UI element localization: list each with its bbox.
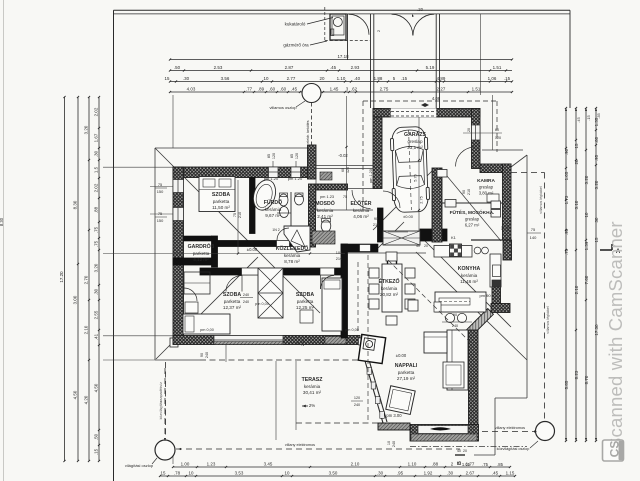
svg-text:2.10: 2.10	[574, 285, 579, 294]
dim chain right 3	[585, 108, 587, 441]
dim chain left 4	[98, 97, 100, 461]
svg-text:B: B	[457, 461, 463, 465]
svg-text:.75: .75	[482, 462, 488, 467]
porch dim line vertical	[346, 96, 348, 210]
svg-text:.85: .85	[497, 462, 503, 467]
svg-text:parketta: parketta	[297, 299, 314, 304]
dim line 60/120 garage east	[463, 132, 502, 134]
extension line terrace door	[275, 361, 277, 440]
svg-text:20: 20	[467, 128, 471, 132]
svg-text:.60: .60	[594, 136, 599, 143]
svg-text:2.77: 2.77	[287, 76, 296, 81]
svg-text:villamos légkábel: villamos légkábel	[546, 306, 550, 334]
fireplace (kandallo)	[358, 334, 385, 363]
svg-text:240: 240	[392, 441, 396, 447]
svg-text:SZOBA: SZOBA	[212, 192, 230, 198]
svg-text:pm 90: pm 90	[479, 293, 491, 298]
wall garage east	[472, 109, 481, 169]
porch valley short diagonal	[378, 222, 404, 248]
window gap in garage east wall	[472, 125, 481, 140]
svg-text:5.19: 5.19	[426, 65, 435, 70]
svg-text:.40: .40	[354, 76, 361, 81]
svg-text:TERASZ: TERASZ	[302, 377, 324, 383]
svg-text:pm 0,00: pm 0,00	[255, 302, 269, 306]
svg-text:2.53: 2.53	[214, 65, 223, 70]
tv cabinet rotated	[386, 386, 415, 415]
svg-text:±0.00: ±0.00	[403, 214, 414, 219]
rug dashed	[388, 231, 408, 233]
svg-text:csapadékvíz: csapadékvíz	[159, 382, 163, 402]
light pole circle (villanyoszlop)	[302, 84, 321, 103]
wc mosdo	[321, 220, 331, 232]
svg-text:1.67: 1.67	[94, 133, 99, 142]
svg-text:1.05: 1.05	[462, 462, 471, 467]
svg-text:pm 1.20: pm 1.20	[288, 176, 303, 181]
svg-text:150: 150	[157, 218, 164, 223]
svg-text:20,82 m²: 20,82 m²	[380, 292, 399, 297]
svg-text:1.23: 1.23	[207, 461, 216, 466]
svg-text:210: 210	[467, 189, 471, 195]
svg-text:kerámia: kerámia	[381, 286, 398, 291]
svg-text:parketta: parketta	[193, 251, 210, 256]
wc 2	[295, 194, 304, 205]
SE eaves step	[495, 397, 527, 399]
kukatarolo eaves dashes	[324, 7, 326, 41]
svg-text:240: 240	[243, 300, 249, 304]
wall gardrobe east	[212, 236, 218, 267]
gardrobe shelves	[184, 272, 210, 294]
interior dim line vertical	[237, 180, 239, 253]
wall gardrobe north partial	[184, 236, 212, 241]
svg-text:17.30: 17.30	[594, 324, 599, 336]
kamra door white 2	[445, 200, 456, 208]
svg-text:1.10: 1.10	[337, 76, 346, 81]
svg-text:SZOBA: SZOBA	[296, 292, 314, 298]
svg-text:pm 1.20: pm 1.20	[369, 169, 373, 183]
svg-text:.62: .62	[351, 86, 358, 91]
dashed line right side vertical	[544, 173, 546, 421]
glazed wall bottom connect	[378, 423, 410, 430]
washer dryer boiler	[491, 201, 501, 209]
svg-text:pm 1.23: pm 1.23	[320, 194, 334, 199]
extension line to east wing eaves	[491, 95, 493, 150]
svg-text:.15: .15	[401, 76, 408, 81]
nappali west angled glazed wall	[358, 335, 384, 423]
door arc gardrobe	[184, 288, 197, 301]
svg-text:85: 85	[290, 154, 294, 158]
big south window / terrace door	[214, 336, 283, 345]
svg-text:120: 120	[295, 153, 299, 159]
driveway west double line	[370, 14, 372, 108]
svg-text:.90: .90	[564, 148, 569, 155]
kamra door white 1	[437, 170, 447, 178]
property boundary top double line	[114, 9, 571, 11]
garage eaves dashed east	[496, 101, 498, 152]
south door sill szoba2	[325, 337, 346, 345]
svg-text:20: 20	[320, 76, 325, 81]
svg-text:.75: .75	[94, 240, 99, 247]
svg-text:KONYHA: KONYHA	[458, 266, 481, 272]
svg-text:3.56: 3.56	[221, 76, 230, 81]
garage interior dim line	[418, 117, 420, 231]
svg-text:1.51: 1.51	[493, 65, 502, 70]
svg-text:3.20: 3.20	[94, 263, 99, 272]
wall garage kamra sep	[432, 168, 442, 242]
sliding window black lens	[430, 427, 451, 430]
porch-garage valley diagonal	[373, 171, 432, 230]
svg-text:90: 90	[462, 190, 466, 194]
svg-text:240: 240	[301, 340, 305, 346]
svg-text:.75: .75	[564, 248, 569, 255]
door arc szoba3	[226, 276, 242, 292]
svg-text:7.60: 7.60	[584, 275, 589, 284]
sofa L-shape	[447, 330, 468, 390]
kitchen counter east appliances	[490, 254, 501, 287]
svg-text:±0.00: ±0.00	[247, 247, 258, 252]
svg-text:10: 10	[264, 76, 269, 81]
svg-text:K1: K1	[451, 235, 457, 240]
svg-text:pm 0,00: pm 0,00	[200, 328, 214, 332]
svg-text:120: 120	[272, 153, 276, 159]
roof overhang dashed south (main)	[200, 359, 360, 361]
ridge dash diagonal	[388, 260, 470, 342]
porch slab south line	[348, 252, 426, 254]
svg-text:8,78 m²: 8,78 m²	[284, 259, 300, 264]
svg-text:3,80 m²: 3,80 m²	[479, 190, 494, 195]
svg-text:.45: .45	[492, 470, 499, 475]
svg-text:15: 15	[594, 237, 599, 242]
svg-text:1.73: 1.73	[564, 195, 569, 204]
svg-text:8.30: 8.30	[0, 217, 4, 226]
wall futes east upper	[503, 240, 512, 260]
eaves outline southwest corner	[155, 359, 200, 361]
svg-text:3.20: 3.20	[584, 175, 589, 184]
svg-text:90: 90	[374, 217, 378, 221]
angled glass wall SE	[467, 309, 494, 336]
window W1 in north wall	[269, 167, 279, 178]
svg-text:2.10: 2.10	[84, 325, 89, 334]
property boundary left line	[113, 10, 115, 481]
svg-text:gázmérő óra: gázmérő óra	[283, 43, 309, 48]
svg-text:75: 75	[233, 213, 237, 217]
CS logo box	[603, 440, 624, 461]
svg-text:75: 75	[531, 227, 536, 232]
svg-text:30: 30	[594, 217, 599, 222]
svg-text:közvilágítás: közvilágítás	[159, 400, 163, 419]
svg-text:90: 90	[200, 353, 204, 357]
bidet	[280, 207, 289, 218]
svg-text:4.50: 4.50	[73, 390, 78, 399]
svg-text:világítási oszlop: világítási oszlop	[125, 463, 154, 468]
dim chain right 4	[595, 108, 597, 441]
wall kamra north	[480, 164, 511, 173]
svg-text:8.70: 8.70	[584, 375, 589, 384]
svg-text:1.51: 1.51	[472, 86, 481, 91]
garage eaves dashed west	[362, 101, 364, 211]
svg-text:1.92: 1.92	[424, 470, 433, 475]
wall gardrobe south	[173, 258, 212, 265]
svg-text:2%: 2%	[309, 403, 315, 408]
east wing eaves north	[482, 149, 523, 151]
svg-text:150: 150	[157, 189, 164, 194]
wall left-wing west	[173, 167, 184, 344]
svg-text:1.88: 1.88	[374, 76, 383, 81]
shower corner	[284, 226, 310, 252]
svg-text:20: 20	[463, 449, 467, 453]
eaves outline west	[154, 148, 156, 360]
svg-text:2.27: 2.27	[437, 86, 446, 91]
door arc garage side	[383, 191, 400, 208]
svg-text:pm 0,00: pm 0,00	[345, 328, 359, 332]
svg-text:10: 10	[285, 470, 290, 475]
bar stools	[445, 313, 454, 322]
svg-text:3.45: 3.45	[264, 461, 273, 466]
extension line top wall to left chains	[103, 166, 173, 168]
svg-text:ÉTKEZŐ: ÉTKEZŐ	[378, 277, 399, 285]
south sliding window	[418, 426, 468, 434]
svg-text:1.15: 1.15	[506, 470, 515, 475]
svg-text:4,12 m²: 4,12 m²	[193, 257, 209, 262]
svg-text:105: 105	[336, 250, 343, 255]
svg-text:1.06: 1.06	[488, 76, 497, 81]
svg-text:10: 10	[189, 470, 194, 475]
svg-text:30,41 m²: 30,41 m²	[303, 390, 322, 395]
wall kitchen east	[492, 258, 501, 304]
dim chain left 2	[77, 97, 79, 461]
svg-text:.15: .15	[94, 448, 99, 455]
bath partition	[290, 192, 292, 226]
extension line bottom chain to house	[172, 448, 174, 464]
svg-text:90: 90	[453, 313, 457, 317]
svg-text:.15: .15	[586, 115, 591, 120]
svg-text:.98: .98	[564, 228, 569, 235]
svg-text:kerámia: kerámia	[304, 384, 321, 389]
door arc bath	[277, 228, 289, 240]
bathtub	[250, 177, 280, 213]
svg-text:120: 120	[346, 167, 350, 173]
svg-text:greslap: greslap	[407, 139, 423, 144]
svg-text:pm 1.20: pm 1.20	[264, 176, 279, 181]
svg-text:2.02: 2.02	[94, 183, 99, 192]
svg-text:pm 3.00: pm 3.00	[386, 413, 402, 418]
elder east wall lower black	[378, 208, 384, 242]
door gap bathroom south	[277, 241, 289, 246]
porch column	[388, 258, 397, 267]
scan left edge shadow	[3, 0, 5, 481]
wall bathroom south	[215, 241, 310, 247]
kamra diagonal roof line	[442, 170, 501, 241]
svg-text:2.02: 2.02	[94, 107, 99, 116]
svg-text:.88: .88	[94, 206, 99, 213]
east wing eaves corner diagonal	[511, 155, 527, 167]
nappali SW overhang dashed	[296, 422, 378, 424]
wall porch stub	[308, 145, 317, 179]
east wing eaves east vertical	[526, 155, 528, 360]
svg-text:240: 240	[205, 352, 209, 358]
svg-text:4,06 m²: 4,06 m²	[353, 214, 369, 219]
svg-text:2.75: 2.75	[380, 86, 389, 91]
entrance mat	[320, 172, 332, 180]
vertical dashed from pole up	[164, 368, 166, 439]
svg-text:210: 210	[506, 225, 510, 231]
svg-text:9,67 m²: 9,67 m²	[265, 213, 281, 218]
wall left-wing north	[173, 167, 311, 178]
wall garage north	[373, 109, 480, 118]
svg-text:-0.02: -0.02	[338, 153, 348, 158]
svg-text:4.20: 4.20	[84, 395, 89, 404]
kitchen counter north	[434, 246, 472, 258]
desk szoba3	[185, 302, 198, 313]
wall corridor south (above bedrooms)	[200, 268, 342, 275]
coffee table	[443, 362, 464, 388]
wall kitchen south	[491, 304, 510, 313]
svg-text:.30: .30	[183, 76, 190, 81]
svg-text:.95: .95	[594, 154, 599, 161]
svg-text:parketta: parketta	[213, 199, 230, 204]
svg-text:8.30: 8.30	[73, 200, 78, 209]
kitchen island	[435, 292, 486, 312]
svg-text:240: 240	[354, 403, 360, 407]
svg-text:60: 60	[341, 168, 345, 172]
svg-text:210: 210	[373, 223, 379, 227]
door gaps corridor south	[242, 269, 258, 275]
svg-text:2.93: 2.93	[351, 65, 360, 70]
extension line house west to top chains	[172, 95, 174, 148]
svg-text:15: 15	[574, 143, 579, 148]
svg-text:20: 20	[574, 159, 579, 164]
svg-text:SZOBA: SZOBA	[223, 292, 241, 298]
main gate swing arcs	[392, 14, 413, 35]
svg-text:240: 240	[243, 293, 249, 297]
svg-text:.30: .30	[94, 288, 99, 295]
svg-text:2.70: 2.70	[84, 275, 89, 284]
dim chain bottom 2	[160, 475, 515, 477]
svg-text:210: 210	[336, 256, 343, 261]
window dim leader lines	[150, 186, 173, 188]
svg-text:greslap: greslap	[479, 184, 494, 189]
svg-text:.50: .50	[94, 433, 99, 440]
svg-text:210: 210	[238, 212, 242, 218]
SE valley diagonal	[424, 240, 511, 327]
svg-text:11,50 m²: 11,50 m²	[212, 205, 230, 210]
driveway east double line	[435, 14, 437, 108]
svg-text:10: 10	[387, 441, 391, 445]
svg-text:12,37 m²: 12,37 m²	[223, 305, 242, 310]
svg-text:140: 140	[530, 235, 537, 240]
small gate swing arc	[349, 14, 370, 35]
svg-text:75: 75	[158, 182, 162, 187]
svg-text:.30: .30	[447, 470, 454, 475]
entrance steps	[383, 231, 420, 245]
wardrobe with X	[258, 268, 283, 318]
svg-text:.77: .77	[246, 86, 253, 91]
svg-text:3.20: 3.20	[84, 125, 89, 134]
dim chain top 1	[170, 59, 512, 61]
svg-text:6,27 m²: 6,27 m²	[465, 222, 480, 227]
svg-text:.30: .30	[94, 150, 99, 157]
kamra shelf	[487, 194, 499, 202]
section marker A	[600, 249, 612, 251]
wall east of szoba2 / etkezo west	[341, 244, 348, 338]
wall mosdo west	[309, 184, 316, 247]
svg-text:2.87: 2.87	[285, 65, 294, 70]
svg-text:120: 120	[354, 396, 360, 400]
svg-text:kerámia: kerámia	[265, 207, 282, 212]
svg-text:.60: .60	[269, 86, 276, 91]
svg-text:CS: CS	[608, 441, 622, 458]
svg-text:8.23: 8.23	[574, 370, 579, 379]
svg-text:.78: .78	[174, 470, 181, 475]
svg-text:1.45: 1.45	[330, 86, 339, 91]
svg-text:11,46 m²: 11,46 m²	[460, 279, 478, 284]
svg-text:.41: .41	[94, 333, 99, 340]
svg-text:23,1 m²: 23,1 m²	[407, 145, 423, 150]
svg-text:.60: .60	[280, 86, 287, 91]
dim chain top 4	[170, 91, 512, 93]
svg-text:1.00: 1.00	[181, 461, 190, 466]
SE eaves diagonal	[416, 252, 527, 360]
svg-text:.89: .89	[258, 86, 265, 91]
svg-text:2,41 m²: 2,41 m²	[317, 214, 333, 219]
utility pole circle bottom-right	[536, 422, 555, 441]
svg-text:3.53: 3.53	[235, 470, 244, 475]
wc 1	[279, 194, 288, 206]
window in west wall 1	[173, 180, 184, 193]
svg-text:.95: .95	[397, 470, 404, 475]
extension line garage east to boundary	[480, 14, 482, 95]
svg-text:.30: .30	[377, 470, 384, 475]
svg-text:kerámia: kerámia	[284, 253, 301, 258]
svg-text:.75: .75	[94, 226, 99, 233]
svg-text:.45: .45	[330, 65, 337, 70]
svg-text:KAMRA: KAMRA	[477, 178, 495, 184]
K1 shaft checker	[450, 244, 462, 257]
svg-text:90: 90	[296, 341, 300, 345]
svg-text:közvilágítási oszlop: közvilágítási oszlop	[497, 447, 530, 451]
svg-text:5.85: 5.85	[564, 380, 569, 389]
dim chain top 2	[170, 70, 512, 72]
svg-text:.45: .45	[291, 86, 298, 91]
svg-text:±0.00: ±0.00	[396, 353, 407, 358]
window W2 in north wall	[291, 167, 301, 178]
wall garage south black	[420, 229, 447, 241]
svg-text:5.75: 5.75	[414, 174, 418, 181]
svg-text:NAPPALI: NAPPALI	[395, 363, 418, 369]
svg-text:15: 15	[161, 470, 166, 475]
svg-text:greslap: greslap	[465, 216, 480, 221]
wall garage west	[373, 109, 382, 189]
bed szoba2	[322, 278, 342, 331]
wall nappali east	[469, 330, 479, 441]
svg-text:KÖZLEKEDŐ: KÖZLEKEDŐ	[276, 245, 309, 252]
svg-text:elektr. bekötés: elektr. bekötés	[306, 120, 310, 143]
svg-text:4.03: 4.03	[187, 86, 196, 91]
svg-text:.35: .35	[596, 113, 601, 118]
svg-text:1N 2: 1N 2	[272, 228, 280, 232]
svg-text:50: 50	[501, 226, 505, 230]
dim chain right 1	[565, 108, 567, 441]
svg-text:3.50: 3.50	[329, 470, 338, 475]
svg-text:75: 75	[343, 194, 347, 199]
svg-text:FÜRDŐ: FÜRDŐ	[264, 199, 282, 206]
svg-text:villany elektromos: villany elektromos	[495, 426, 525, 430]
car in garage	[390, 126, 430, 212]
garage door opening	[391, 109, 436, 118]
SE eaves vertical	[526, 360, 528, 398]
hip roof diagonal SW	[156, 257, 258, 359]
armchair	[408, 300, 418, 311]
level line corridor	[103, 253, 345, 255]
